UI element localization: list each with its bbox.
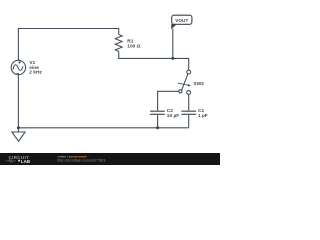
wire: V1 bottom down to rail	[17, 75, 19, 128]
ground	[12, 128, 25, 142]
footer bar	[0, 153, 220, 165]
resistor R1	[115, 35, 140, 52]
capacitor C2	[150, 108, 179, 119]
svg-text:2 kHz: 2 kHz	[29, 70, 42, 76]
wire: bottom ground rail	[18, 127, 188, 129]
svg-text:VOUT: VOUT	[175, 18, 188, 23]
node junction dot V1/ground/rail	[17, 126, 20, 129]
voltage source V1	[11, 60, 42, 76]
node junction dot C2/rail	[156, 126, 159, 129]
svg-text:LAB: LAB	[21, 159, 31, 164]
node VOUT flag	[171, 15, 192, 29]
wire: R1 bottom to mid rail and VOUT junction	[119, 51, 173, 58]
wire: C1 bottom to ground rail	[188, 115, 190, 128]
capacitor C1	[181, 108, 207, 119]
node VOUT junction dot	[171, 57, 174, 60]
wire: V1 top up and across top rail to R1 top	[18, 29, 118, 61]
switch SW3	[178, 70, 204, 94]
svg-text:10 µF: 10 µF	[167, 113, 179, 119]
wire: switch bottom contact to C1 top	[188, 94, 190, 110]
wire: switch left contact to C2 top	[158, 91, 179, 110]
svg-text:http://circuitlab.com/c6779b3: http://circuitlab.com/c6779b3	[57, 159, 105, 163]
wire: C2 bottom to ground rail	[157, 115, 159, 128]
wire: VOUT flag tail down to junction	[172, 29, 174, 59]
svg-text:1 µF: 1 µF	[198, 113, 208, 119]
svg-text:SW3: SW3	[193, 81, 204, 87]
wire: VOUT junction to switch top	[173, 58, 189, 70]
svg-text:100 Ω: 100 Ω	[127, 44, 140, 50]
